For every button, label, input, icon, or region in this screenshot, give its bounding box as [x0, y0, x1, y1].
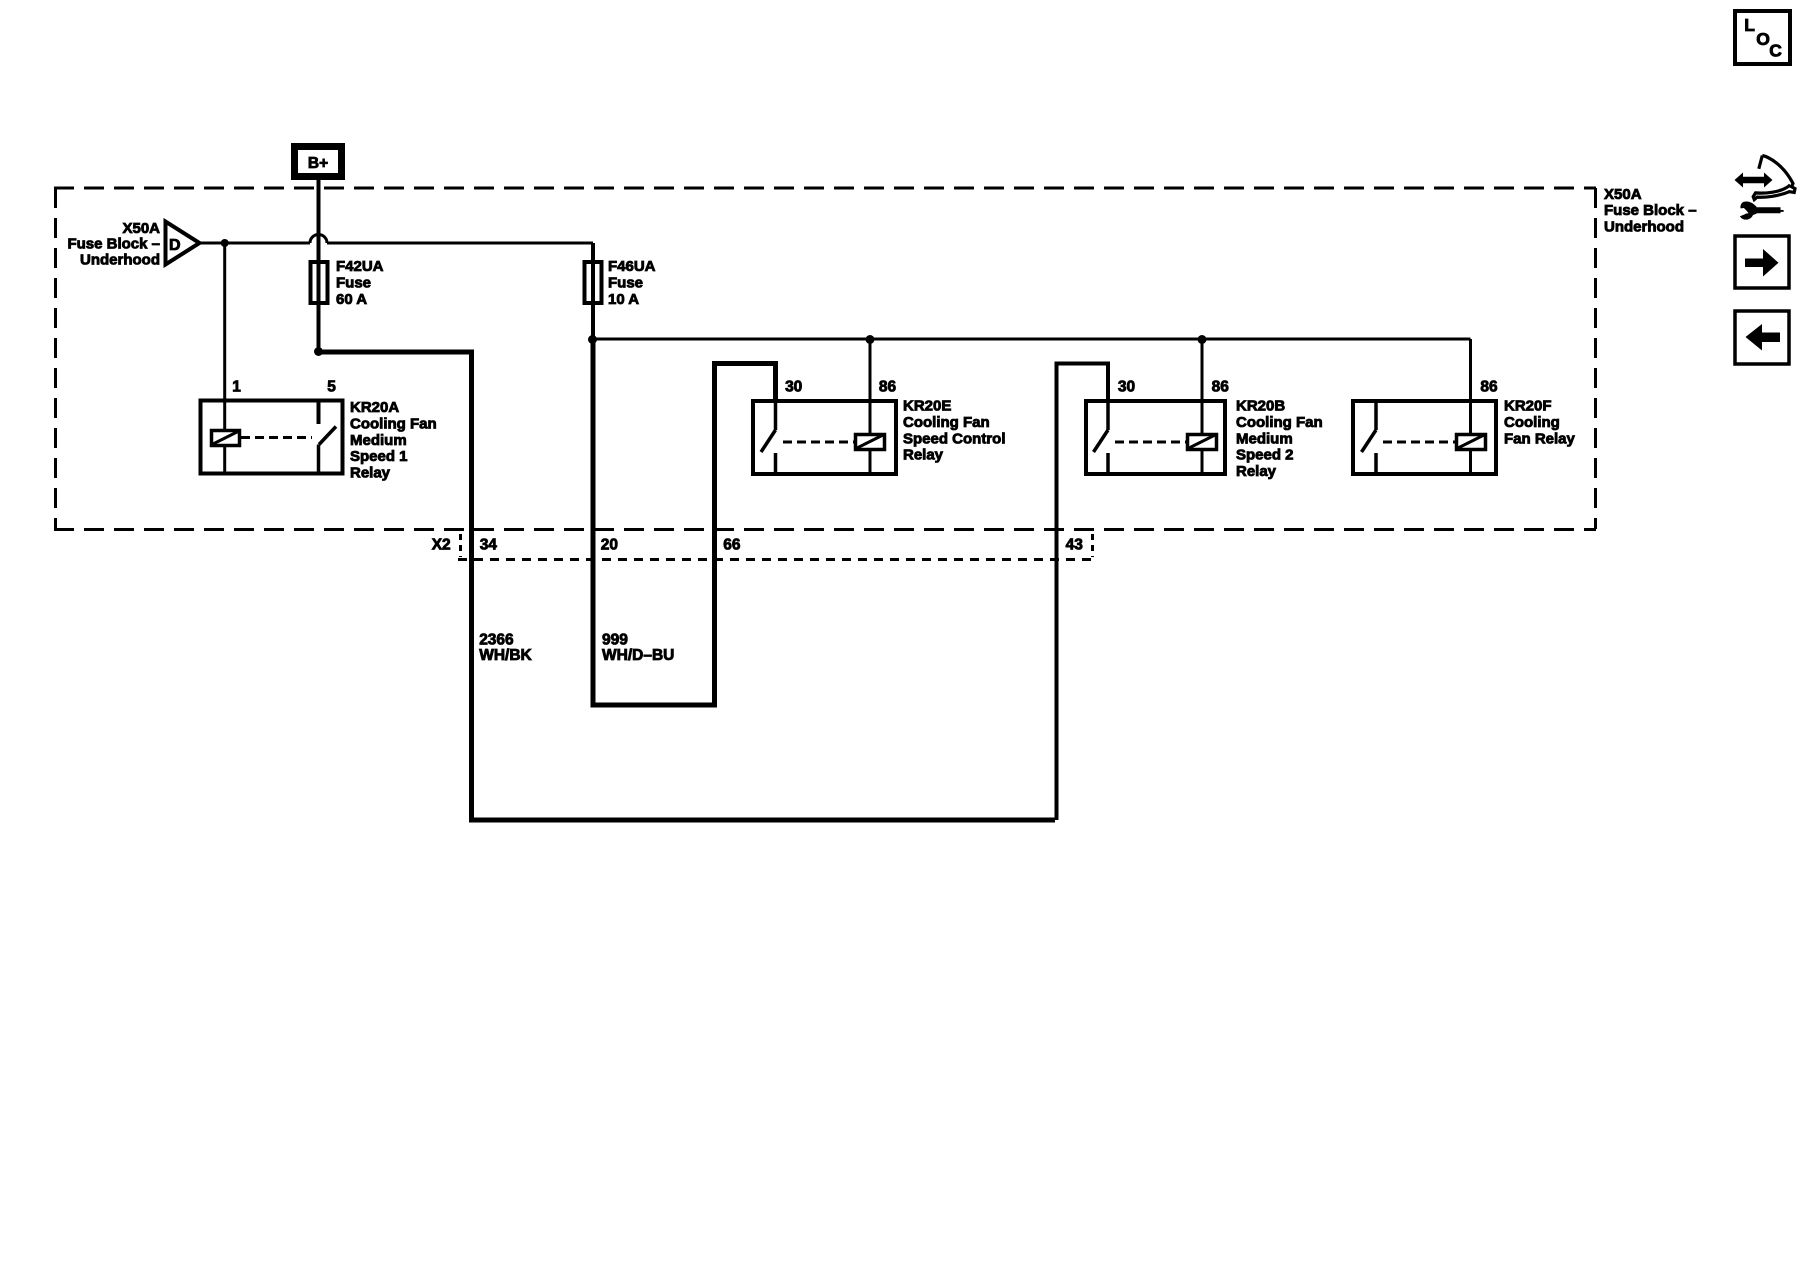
- svg-text:43: 43: [1066, 537, 1084, 554]
- svg-text:Relay: Relay: [903, 447, 944, 464]
- svg-text:20: 20: [601, 537, 618, 554]
- svg-text:5: 5: [327, 379, 336, 396]
- svg-text:86: 86: [879, 379, 897, 396]
- svg-text:Fuse: Fuse: [336, 275, 371, 292]
- svg-text:Fuse: Fuse: [608, 275, 643, 292]
- svg-text:Speed Control: Speed Control: [903, 430, 1006, 447]
- svg-text:WH/BK: WH/BK: [479, 647, 532, 664]
- svg-text:66: 66: [723, 537, 741, 554]
- svg-text:Speed 2: Speed 2: [1236, 447, 1294, 464]
- svg-text:Relay: Relay: [1236, 463, 1277, 480]
- svg-text:2366: 2366: [479, 632, 514, 649]
- svg-text:Fuse Block –: Fuse Block –: [67, 236, 160, 253]
- svg-text:999: 999: [602, 632, 628, 649]
- svg-text:1: 1: [232, 379, 241, 396]
- svg-text:86: 86: [1212, 379, 1230, 396]
- svg-text:60 A: 60 A: [336, 291, 367, 308]
- svg-text:Speed 1: Speed 1: [350, 448, 408, 465]
- svg-text:Medium: Medium: [1236, 430, 1293, 447]
- svg-text:L: L: [1744, 15, 1755, 35]
- svg-text:30: 30: [1118, 379, 1135, 396]
- svg-text:WH/D–BU: WH/D–BU: [602, 647, 674, 664]
- svg-text:KR20E: KR20E: [903, 398, 951, 415]
- svg-text:D: D: [169, 237, 181, 254]
- svg-text:Fan Relay: Fan Relay: [1504, 430, 1576, 447]
- svg-text:KR20A: KR20A: [350, 399, 399, 416]
- svg-text:30: 30: [785, 379, 802, 396]
- svg-text:F46UA: F46UA: [608, 258, 656, 275]
- svg-text:Cooling: Cooling: [1504, 414, 1560, 431]
- svg-text:10 A: 10 A: [608, 291, 639, 308]
- svg-text:KR20F: KR20F: [1504, 398, 1552, 415]
- svg-text:Fuse Block –: Fuse Block –: [1604, 202, 1697, 219]
- svg-text:X2: X2: [432, 537, 451, 554]
- svg-text:KR20B: KR20B: [1236, 398, 1285, 415]
- svg-text:O: O: [1756, 29, 1770, 49]
- svg-text:86: 86: [1480, 379, 1498, 396]
- svg-text:X50A: X50A: [1604, 186, 1642, 203]
- svg-text:Cooling Fan: Cooling Fan: [903, 414, 990, 431]
- svg-text:Medium: Medium: [350, 432, 407, 449]
- svg-text:Cooling Fan: Cooling Fan: [1236, 414, 1323, 431]
- svg-text:F42UA: F42UA: [336, 258, 384, 275]
- svg-text:X50A: X50A: [122, 220, 160, 237]
- svg-text:34: 34: [480, 537, 498, 554]
- svg-text:B+: B+: [308, 155, 328, 172]
- svg-text:Underhood: Underhood: [80, 252, 160, 269]
- svg-text:Relay: Relay: [350, 465, 391, 482]
- svg-text:Cooling Fan: Cooling Fan: [350, 415, 437, 432]
- svg-text:C: C: [1769, 40, 1782, 60]
- svg-text:Underhood: Underhood: [1604, 219, 1684, 236]
